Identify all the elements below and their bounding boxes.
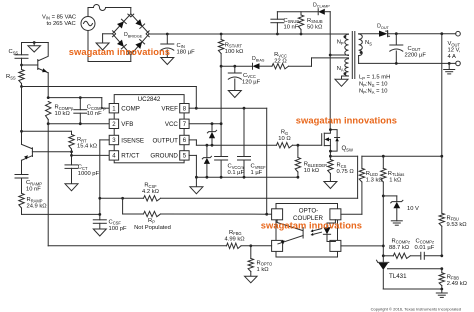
bridge diode D3 (left-bottom) — [112, 34, 130, 54]
label CVCCm 0.1uF — [228, 164, 245, 177]
svg-text:LP = 1.5 mH: LP = 1.5 mH — [359, 75, 390, 81]
label CIN 180uF — [177, 43, 196, 56]
copyright — [371, 306, 461, 311]
wire RCSF to ISENSE — [123, 197, 144, 199]
resistor RCOMPz 88.7k — [393, 253, 410, 258]
label RFBU 9.53k — [447, 215, 468, 228]
diode DCLAMP — [318, 9, 330, 15]
wire Vout to RLED rail — [362, 155, 442, 157]
svg-text:RRAMP​: RRAMP​ — [27, 197, 43, 203]
svg-text:10 kΩ: 10 kΩ — [304, 168, 320, 174]
label ROPTO 1k — [257, 260, 273, 273]
svg-text:120 µF: 120 µF — [242, 79, 261, 85]
capacitor CRAMP 10nF — [15, 175, 28, 194]
wire AC bottom to bridge — [88, 55, 131, 62]
bridge diode D2 (top-right) — [131, 14, 149, 33]
svg-text:CCSF​: CCSF​ — [109, 219, 122, 225]
svg-text:COMP: COMP — [121, 106, 140, 113]
transformer secondary NS winding — [359, 34, 363, 56]
wire drain rail — [329, 12, 331, 130]
node CVREF tap — [243, 107, 246, 110]
svg-text:15.4 kΩ: 15.4 kΩ — [77, 144, 98, 150]
wire B+ rail — [149, 33, 348, 35]
label RP Not Populated — [134, 218, 171, 231]
svg-text:10 nF: 10 nF — [87, 111, 102, 117]
svg-text:DCLAMP​: DCLAMP​ — [313, 2, 330, 8]
pin 4 RT/CT — [109, 151, 139, 160]
wire RTCT to pin4 — [72, 154, 110, 156]
node COUT top — [395, 32, 398, 35]
AC source V1 85-265 VAC — [81, 8, 95, 62]
capacitor CCOMPp 10nF — [74, 98, 87, 124]
svg-text:22 Ω: 22 Ω — [274, 59, 287, 65]
label DCLAMP — [313, 2, 330, 8]
watermark 3 — [261, 220, 362, 230]
svg-text:QSW​: QSW​ — [342, 146, 353, 152]
resistor RCSF 4.2k — [144, 196, 161, 201]
label RBLEEDER 10k — [304, 162, 327, 175]
node B+ Cin — [166, 33, 169, 36]
opto light arrows — [311, 229, 322, 236]
node gnd CVREF — [243, 176, 246, 179]
resistor RLED 1.3k — [359, 156, 364, 214]
ground under pin5 — [190, 177, 203, 194]
svg-text:1 kΩ: 1 kΩ — [389, 177, 402, 183]
capacitor CIN 180uF — [161, 34, 174, 58]
label DBRIDGE — [124, 32, 143, 38]
svg-text:GROUND: GROUND — [150, 153, 178, 160]
ground under NA — [335, 79, 348, 86]
ground at output return — [444, 63, 455, 74]
svg-text:DOUT​: DOUT​ — [377, 24, 389, 30]
node source CS — [329, 155, 332, 158]
label RFBG 4.99k — [225, 230, 246, 243]
bridge diode D4 (bottom-right) — [131, 34, 149, 54]
transistor Q1 soft-start PNP — [22, 43, 49, 73]
wire pin7 VCC — [189, 123, 221, 125]
resistor RRAMP 24.9k — [19, 193, 24, 214]
zener D2 output-to-VCC — [207, 124, 216, 146]
diode DBIAS — [253, 63, 273, 69]
node B+ Rstart — [220, 33, 223, 36]
svg-text:ROPTO​: ROPTO​ — [257, 260, 273, 266]
svg-text:100 kΩ: 100 kΩ — [225, 49, 244, 55]
svg-text:CCT​: CCT​ — [78, 165, 88, 171]
opto pin bottom-left — [272, 240, 283, 251]
wire Vout rail down right side — [441, 34, 443, 214]
wire pin8 VREF — [189, 107, 196, 109]
svg-text:RFBG​: RFBG​ — [229, 230, 242, 236]
svg-text:swagatam innovations: swagatam innovations — [296, 116, 397, 126]
svg-text:NP​: NP​ — [337, 40, 344, 46]
svg-text:0.75 Ω: 0.75 Ω — [337, 169, 355, 175]
svg-text:4 A: 4 A — [448, 54, 457, 60]
svg-text:RSS​: RSS​ — [6, 74, 16, 80]
svg-text:10 V: 10 V — [407, 206, 419, 212]
capacitor CCSF 100pF — [93, 220, 106, 229]
svg-text:10 Ω: 10 Ω — [278, 136, 291, 142]
node zener D3 top — [206, 144, 209, 147]
svg-text:RSNUB​: RSNUB​ — [307, 18, 323, 24]
svg-text:12 V,: 12 V, — [448, 48, 461, 54]
diode DOUT schottky — [379, 31, 390, 37]
wire Q1 collector to COMP — [47, 73, 49, 98]
wire pin3 ISENSE — [100, 140, 109, 220]
node ISENSE ramp — [98, 213, 101, 216]
node VCC rail — [220, 122, 223, 125]
node ISENSE filter — [98, 197, 101, 200]
capacitor COUT 2200uF — [390, 34, 403, 64]
svg-text:Copyright © 2016, Texas Instru: Copyright © 2016, Texas Instruments Inco… — [371, 306, 461, 311]
node CVCC tap — [233, 65, 236, 68]
wire DOUT to Vout terminal — [388, 33, 456, 35]
ground on soft-start rail — [28, 41, 41, 52]
resistor ROPTO 1k — [248, 246, 253, 276]
op-amp U1 UC2842 body — [114, 95, 184, 163]
wire RRT top — [22, 130, 72, 132]
label UC2842 — [138, 96, 161, 103]
svg-text:50 kΩ: 50 kΩ — [307, 24, 323, 30]
node Vout rail top — [440, 32, 443, 35]
pin 5 GROUND — [150, 151, 189, 160]
svg-text:CSS​: CSS​ — [9, 49, 19, 55]
svg-text:10 kΩ: 10 kΩ — [55, 111, 71, 117]
label RSS — [6, 74, 16, 80]
label RVCC 22 — [274, 52, 287, 64]
svg-text:9.53 kΩ: 9.53 kΩ — [447, 222, 468, 228]
svg-text:CVREF​: CVREF​ — [251, 164, 267, 170]
label RCS 0.75 — [337, 163, 355, 176]
wire Q2 emitter down — [21, 160, 23, 174]
svg-text:CIN​: CIN​ — [177, 43, 185, 49]
label RRT 15.4k — [77, 137, 98, 150]
capacitor CSS — [15, 43, 28, 66]
terminal Vout- — [456, 61, 461, 66]
watermark 2 — [296, 116, 397, 126]
zener D3 output-to-ground — [202, 145, 211, 177]
label NA — [337, 66, 344, 72]
node return ground tap — [448, 62, 451, 65]
resistor RVCC 22ohm — [272, 64, 289, 69]
NP phase dot — [344, 35, 347, 38]
node RSS bottom / VREF — [20, 85, 23, 88]
ground under RCS — [324, 182, 337, 189]
transistor QSW MOSFET — [322, 130, 340, 157]
ground at bridge negative — [96, 43, 109, 50]
ground under CIN — [161, 58, 174, 65]
resistor RBLEEDER 10k — [295, 145, 300, 177]
ground bottom right — [436, 293, 447, 297]
label 10 V — [407, 206, 419, 212]
label RTLbias 1k — [388, 171, 404, 184]
node gnd pin5 — [195, 176, 198, 179]
svg-text:RRT​: RRT​ — [77, 137, 87, 143]
svg-text:swagatam innovations: swagatam innovations — [69, 47, 170, 57]
label CCT 1000pF — [78, 165, 100, 178]
wire opto collector stub — [267, 213, 272, 215]
label Vin 85-265 VAC — [42, 14, 76, 27]
node VREF — [195, 107, 198, 110]
wire AC top to bridge — [130, 8, 132, 14]
node anode return — [440, 288, 443, 291]
capacitor CVREF 1uF — [238, 108, 251, 177]
node divider mid — [440, 267, 443, 270]
transformer core — [352, 32, 355, 79]
ground under CCSF — [93, 229, 106, 236]
opto-coupler U2 box — [276, 204, 338, 258]
wire ISENSE node — [100, 197, 123, 199]
svg-text:TL431: TL431 — [389, 273, 407, 280]
svg-text:NP:NS = 10: NP:NS = 10 — [359, 82, 388, 88]
resistor RFBB 2.49k — [439, 269, 444, 293]
transistor Q2 ramp buffer — [22, 144, 72, 160]
ground under ROPTO — [245, 276, 257, 283]
svg-text:88.7 kΩ: 88.7 kΩ — [389, 245, 410, 251]
svg-text:24.9 kΩ: 24.9 kΩ — [27, 204, 48, 210]
svg-text:NS​: NS​ — [365, 40, 372, 46]
wire RRAMP to ISENSE node — [22, 213, 100, 215]
node RT base — [70, 150, 73, 153]
label RSTART 100k — [225, 42, 244, 55]
node B+ Rsnub — [300, 33, 303, 36]
node COUT bottom — [395, 62, 398, 65]
label RFBB 2.49k — [447, 274, 468, 287]
node VCC feed — [220, 65, 223, 68]
wire soft-start top rail — [22, 42, 49, 44]
svg-text:RSTART​: RSTART​ — [225, 42, 243, 48]
svg-text:to 265 VAC: to 265 VAC — [47, 21, 76, 27]
node Vout rail RLED — [440, 155, 443, 158]
svg-text:0.01 µF: 0.01 µF — [415, 245, 435, 251]
opto pin top-right — [330, 209, 341, 220]
svg-text:RBLEEDER​: RBLEEDER​ — [304, 162, 327, 168]
node RT pin4 — [70, 154, 73, 157]
pin 7 VCC — [165, 119, 189, 128]
wire VREF to opto collector — [266, 108, 268, 214]
label RSNUB 50k — [307, 18, 323, 31]
opto LED — [323, 220, 335, 242]
svg-text:CRAMP​: CRAMP​ — [26, 180, 42, 186]
svg-text:COUT​: COUT​ — [408, 46, 421, 52]
node opto cathode rail — [382, 245, 385, 248]
label QSW — [342, 146, 353, 152]
wire RLED to opto anode — [341, 213, 362, 215]
svg-text:RTLbias​: RTLbias​ — [388, 171, 404, 177]
pin 6 OUTPUT — [152, 135, 189, 144]
svg-text:10 nF: 10 nF — [26, 187, 41, 193]
svg-text:180 µF: 180 µF — [177, 49, 196, 55]
svg-text:4.99 kΩ: 4.99 kΩ — [225, 236, 246, 242]
node opto collector / VREF — [265, 213, 268, 216]
svg-text:RFBU​: RFBU​ — [447, 215, 459, 221]
label NP:NA = 10 — [359, 89, 388, 95]
label RCSF 4.2k — [142, 183, 160, 196]
label CCOMPp 10nF — [87, 105, 106, 118]
svg-text:RP​: RP​ — [148, 218, 155, 224]
svg-text:VFB: VFB — [121, 121, 133, 128]
label DOUT — [377, 24, 389, 30]
label RLED 1.3k — [366, 171, 384, 184]
svg-text:CVCCm​: CVCCm​ — [228, 164, 245, 170]
label NP — [337, 40, 344, 46]
wire bridge negative to ground — [103, 34, 113, 43]
fuse F1 — [88, 5, 131, 11]
svg-text:CVCC​: CVCC​ — [243, 73, 256, 79]
svg-text:RCOMPz​: RCOMPz​ — [392, 238, 411, 244]
terminal Vout+ — [456, 31, 461, 36]
label NS — [365, 40, 372, 46]
label CVCC 120uF — [242, 73, 261, 86]
label RG 10 — [278, 130, 291, 143]
svg-text:NA​: NA​ — [337, 66, 344, 72]
label RRAMP 24.9k — [27, 197, 48, 210]
svg-text:VCC: VCC — [165, 121, 179, 128]
node RG gate / Rbleeder — [297, 144, 300, 147]
ground under CCT — [65, 184, 78, 191]
wire pin6 OUTPUT to gate — [189, 140, 322, 145]
label CVREF 1uF — [251, 164, 267, 177]
svg-text:0.1 µF: 0.1 µF — [228, 170, 245, 176]
label LP 1.5mH — [359, 75, 390, 81]
label COUT 2200uF — [405, 46, 427, 59]
svg-text:VREF: VREF — [161, 106, 178, 113]
transformer primary NP winding — [345, 34, 349, 55]
svg-text:RCS​: RCS​ — [337, 163, 347, 169]
node comp branch — [382, 254, 385, 257]
svg-text:VIN = 85 VAC: VIN = 85 VAC — [42, 14, 76, 20]
label CSNUB 10nF — [284, 18, 300, 31]
ground under CVCC — [228, 91, 241, 98]
svg-text:2200 µF: 2200 µF — [405, 52, 427, 58]
svg-text:DBIAS​: DBIAS​ — [252, 56, 265, 62]
ground under zener 10V — [391, 221, 402, 225]
svg-text:RG​: RG​ — [281, 130, 288, 136]
resistor RP not populated — [123, 198, 267, 216]
svg-text:1.3 kΩ: 1.3 kΩ — [366, 177, 384, 183]
node gnd zener — [206, 176, 209, 179]
wire RVCC to NA — [289, 58, 349, 66]
wire VCC feed — [221, 65, 252, 67]
svg-text:RLED​: RLED​ — [366, 171, 378, 177]
wire VREF to left rail — [22, 86, 197, 88]
label CCOMPz 0.01uF — [415, 238, 435, 251]
wire comp branch — [383, 255, 442, 257]
pin 1 COMP — [109, 104, 140, 113]
node VFB CCOMPp — [79, 122, 82, 125]
wire IC ground rail — [196, 176, 298, 178]
resistor RFBU 9.53k — [439, 213, 444, 256]
resistor RSS — [19, 65, 24, 87]
node ROPTO tap — [249, 244, 252, 247]
label CSS — [9, 49, 19, 55]
pin 2 VFB — [109, 119, 133, 128]
node RTLbias top — [382, 155, 385, 158]
label OPTO-COUPLER — [293, 208, 323, 222]
svg-text:ISENSE: ISENSE — [121, 137, 144, 144]
node zener D2 bottom — [211, 144, 214, 147]
svg-text:1 kΩ: 1 kΩ — [257, 267, 270, 273]
wire VCC rail down — [220, 66, 222, 156]
opto pin top-left — [272, 209, 283, 220]
node drain / NP bottom — [329, 54, 332, 57]
svg-text:NP:NA = 10: NP:NA = 10 — [359, 89, 388, 95]
svg-text:RT/CT: RT/CT — [121, 153, 139, 160]
bridge diode D1 (left-top) — [113, 14, 131, 33]
svg-text:100 pF: 100 pF — [109, 226, 128, 232]
capacitor CSNUB 10nF — [271, 12, 284, 34]
svg-text:RFBB​: RFBB​ — [447, 274, 459, 280]
node CSS/RSS base — [20, 64, 23, 67]
wire opto cathode to rail — [341, 245, 383, 247]
wire VREF up-left — [195, 87, 197, 109]
resistor RG 10ohm — [277, 143, 293, 148]
node COMP RCOMPp — [47, 96, 50, 99]
label VOUT 12V 4A — [448, 41, 461, 60]
resistor RFBG 4.99k — [227, 243, 242, 248]
svg-text:1 µF: 1 µF — [251, 170, 263, 176]
svg-text:1000 pF: 1000 pF — [78, 171, 100, 177]
label RCOMPp 10k — [55, 105, 74, 118]
node RP tap — [121, 197, 124, 200]
node drain — [329, 128, 332, 131]
wire NP bottom to drain — [330, 54, 348, 56]
wire pin5 GROUND — [189, 155, 196, 177]
node source loop — [329, 150, 332, 153]
svg-text:VOUT​: VOUT​ — [448, 41, 461, 47]
pin 8 VREF — [161, 104, 189, 113]
svg-text:CCOMPz​: CCOMPz​ — [416, 238, 435, 244]
svg-text:OUTPUT: OUTPUT — [152, 137, 178, 144]
resistor RCS 0.75 — [328, 156, 333, 181]
node Rbleeder gnd — [297, 176, 300, 179]
resistor RTLbias 1k — [381, 156, 386, 262]
label NP:NS = 10 — [359, 82, 388, 88]
wire left rail down — [21, 87, 23, 145]
node zener D2 top — [211, 122, 214, 125]
node COMP CCOMPp — [79, 96, 82, 99]
wire COMP net — [48, 98, 109, 109]
svg-text:swagatam innovations: swagatam innovations — [261, 220, 362, 230]
zener D4 10V — [383, 196, 403, 221]
svg-text:Not Populated: Not Populated — [134, 225, 171, 231]
opto pin bottom-right — [330, 240, 341, 251]
wire VFB bottom rail — [48, 245, 226, 247]
svg-text:UC2842: UC2842 — [138, 96, 161, 103]
label DBIAS — [252, 56, 265, 62]
node B+ Csnub — [276, 33, 279, 36]
capacitor CVCC 120uF — [228, 66, 241, 90]
svg-text:RCOMPp​: RCOMPp​ — [55, 105, 74, 111]
watermark 1 — [69, 47, 170, 57]
svg-text:4.2 kΩ: 4.2 kΩ — [142, 189, 160, 195]
wire VREF right — [196, 107, 266, 109]
wire TL431 anode return — [383, 288, 442, 290]
node VFB RCOMPp — [47, 122, 50, 125]
opto phototransistor — [277, 220, 303, 245]
label CRAMP 10nF — [26, 180, 42, 193]
svg-text:CSNUB​: CSNUB​ — [284, 18, 300, 24]
node gnd CVCCm — [220, 176, 223, 179]
resistor RCOMPp 10k — [46, 102, 51, 120]
wire NA bottom to ground — [342, 76, 349, 79]
label RCOMPz 88.7k — [389, 238, 410, 251]
capacitor CCT 1000pF — [65, 165, 78, 184]
wire VFB rail down to feedback — [47, 124, 49, 246]
shunt regulator U3 TL431 — [377, 260, 389, 289]
svg-text:DBRIDGE​: DBRIDGE​ — [124, 32, 143, 38]
NS phase dot — [360, 51, 363, 54]
svg-text:OPTO-: OPTO- — [299, 208, 318, 215]
